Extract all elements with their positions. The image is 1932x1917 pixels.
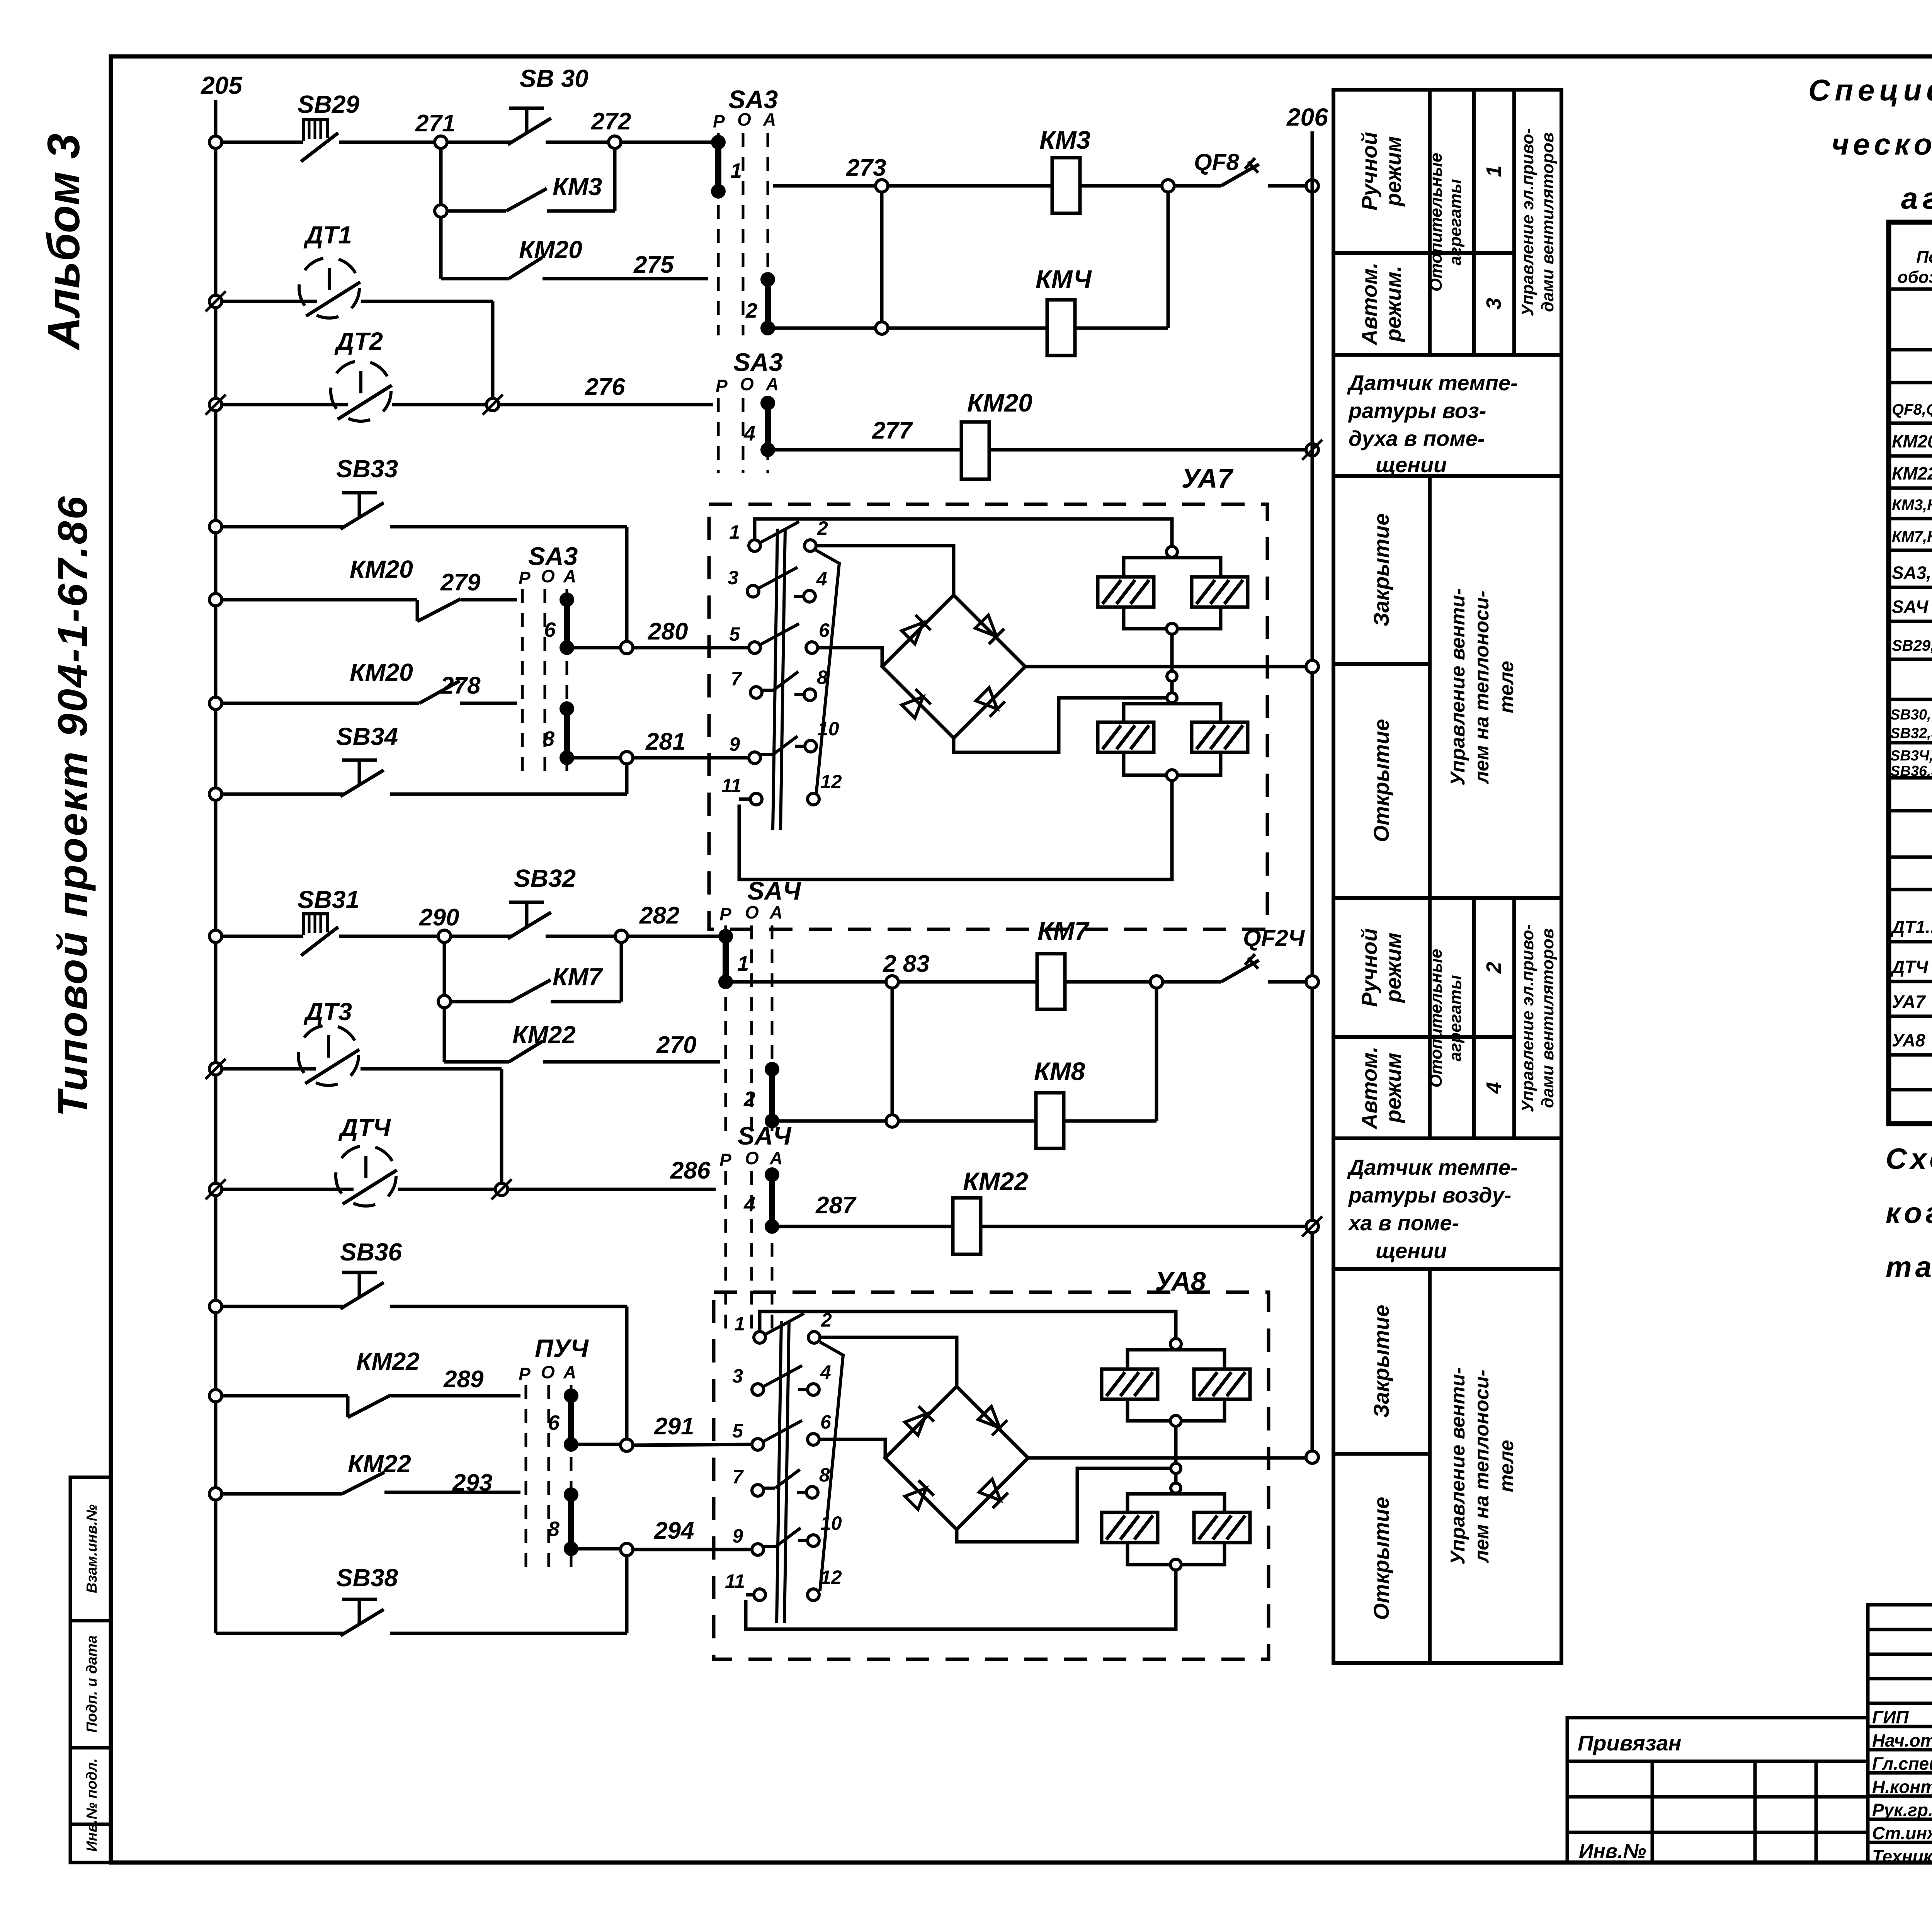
diode VD8: [978, 1478, 1008, 1508]
connector UA7 pin 4: [804, 590, 815, 602]
svg-text:Автом.: Автом.: [1357, 262, 1381, 346]
node on bus row DT2: [206, 395, 226, 415]
node 294: [621, 1543, 633, 1556]
svg-text:режим.: режим.: [1381, 265, 1405, 342]
switch SA3 contact 8 bar: [560, 701, 574, 716]
wire 280 row: [573, 646, 621, 650]
connector UA8 pin 3: [752, 1384, 764, 1395]
svg-text:Н.контр.: Н.контр.: [1872, 1777, 1932, 1797]
svg-text:Ручной: Ручной: [1357, 132, 1381, 210]
wire node272 to SA3: [621, 141, 713, 144]
svg-text:6: 6: [548, 1411, 560, 1434]
connector UA7 bar: [773, 529, 777, 830]
svg-text:УА8: УА8: [1892, 1030, 1925, 1050]
switch PU4 contact 6 bar: [564, 1388, 578, 1403]
connector UA7 pin 9: [749, 752, 760, 764]
svg-text:4: 4: [820, 1361, 831, 1383]
svg-text:Отопительные: Отопительные: [1427, 153, 1446, 291]
svg-text:8: 8: [543, 727, 554, 750]
node 282: [615, 930, 628, 942]
svg-text:А: А: [763, 109, 776, 129]
wire row SB33 left: [221, 525, 344, 529]
button SB34: [342, 759, 377, 762]
wire SB30 to node 272: [546, 141, 608, 144]
switch PU4 contact 8 bar: [564, 1487, 578, 1502]
svg-text:3: 3: [1482, 298, 1505, 310]
coil KM20: [961, 422, 989, 479]
sensor DT3: [298, 1025, 359, 1085]
node on bus row SB31: [209, 930, 222, 942]
connector UA7 pin 6: [806, 642, 818, 653]
node junction 286: [492, 1179, 512, 1199]
wire UA7 bridge output to bus 206: [1025, 665, 1307, 668]
wire 294 row: [577, 1547, 621, 1551]
connector UA8 pin 5: [752, 1439, 764, 1450]
switch SA4 contact 1 bar: [718, 929, 733, 944]
diode VD5: [904, 1406, 934, 1436]
svg-text:Инв.№: Инв.№: [1579, 1840, 1646, 1863]
electromagnet group UA8 opening bottom node: [1170, 1559, 1181, 1570]
svg-text:Закрытие: Закрытие: [1369, 514, 1393, 627]
slashed node on bus 206 row 277: [1302, 440, 1322, 460]
svg-text:режим: режим: [1381, 932, 1405, 1003]
breaker QF8: [1221, 164, 1259, 186]
diode VD3: [901, 689, 931, 719]
switch SA3 contact 1 bar: [711, 135, 726, 150]
svg-text:Управление эл.приво-: Управление эл.приво-: [1518, 128, 1537, 316]
valve UA7 dashed box: [709, 504, 1267, 929]
wire UA8 pin1 to top rail: [760, 1311, 1176, 1338]
svg-text:2 83: 2 83: [883, 951, 930, 977]
switch SA4 contact 2 bar: [765, 1062, 779, 1077]
svg-text:КМ20,: КМ20,: [1892, 431, 1932, 451]
contact KM7 aux: [438, 995, 451, 1008]
wire coil KM4 to vertical: [1075, 327, 1168, 330]
coil KM8: [1036, 1093, 1064, 1148]
connector UA7 moving contact slashes: [760, 522, 799, 543]
svg-text:агрегаты: агрегаты: [1446, 179, 1465, 265]
svg-text:КМЧ: КМЧ: [1036, 265, 1092, 293]
wire vertical from node 271: [439, 148, 443, 279]
svg-text:206: 206: [1286, 103, 1328, 131]
svg-text:ДТ3: ДТ3: [303, 998, 352, 1026]
diode VD1: [901, 615, 931, 645]
svg-text:11: 11: [725, 1570, 745, 1592]
svg-text:агрегаты: агрегаты: [1446, 975, 1465, 1061]
wire UA8 pin11 stub: [746, 1593, 754, 1597]
switch SA3 dashed columns: [717, 133, 720, 335]
node 283: [886, 976, 898, 988]
contact KM22 289: [221, 1394, 348, 1398]
node on bus row 289: [209, 1390, 222, 1402]
connector UA8 right pin stubs: [798, 1388, 808, 1391]
svg-text:Открытие: Открытие: [1369, 719, 1393, 842]
wire DT3 to corner: [361, 1067, 502, 1071]
wire row SB36 left: [221, 1305, 344, 1308]
node 272: [609, 136, 621, 148]
coil KM22: [953, 1198, 981, 1254]
wire row SB29 left: [221, 141, 303, 144]
svg-text:205: 205: [201, 71, 243, 99]
svg-text:Типовой проект 904-1-67.86: Типовой проект 904-1-67.86: [49, 495, 96, 1117]
wire 273 vertical: [880, 192, 884, 322]
svg-text:SA3: SA3: [733, 348, 783, 376]
wire UA8 pin2 to pin12 diagonal: [820, 1342, 843, 1591]
svg-text:А: А: [769, 902, 782, 922]
svg-text:КМ22,: КМ22,: [1892, 463, 1932, 483]
switch SA3 group 2 dashed columns: [717, 398, 720, 473]
wire QF8 to bus 206: [1268, 184, 1306, 188]
electromagnet group UA8 opening bracket bottom: [1128, 1543, 1225, 1565]
electromagnet group UA7 opening bottom node: [1167, 770, 1177, 781]
connector UA7 pin 10: [805, 740, 816, 752]
svg-text:10: 10: [820, 1512, 842, 1534]
svg-text:5: 5: [729, 623, 740, 645]
connector UA8 pin 6: [808, 1434, 819, 1445]
node UA7 middle upper: [1167, 671, 1177, 681]
svg-text:КМ22: КМ22: [963, 1167, 1028, 1196]
svg-text:Схема выполнена на основании: Схема выполнена на основании техничес-: [1886, 1143, 1932, 1175]
node on bus row DT3: [206, 1059, 226, 1079]
switch SA3 contact 4 bar: [760, 396, 775, 410]
node UA8 middle upper: [1171, 1463, 1181, 1473]
svg-text:ха в поме-: ха в поме-: [1347, 1211, 1459, 1235]
wire UA8 coils middle vertical: [1174, 1426, 1178, 1484]
svg-text:4: 4: [743, 422, 755, 445]
svg-text:Взам.инв.№: Взам.инв.№: [84, 1504, 100, 1593]
svg-text:Спецификация принципиальной: Спецификация принципиальной электри-: [1808, 73, 1932, 107]
svg-text:Р: Р: [713, 111, 725, 131]
svg-text:щении: щении: [1376, 1238, 1447, 1263]
wire up to node 272: [613, 148, 617, 211]
wire UA7 pin1 to top rail: [755, 519, 1172, 546]
node 291: [621, 1439, 633, 1451]
node UA8 opening top node: [1171, 1483, 1181, 1493]
svg-text:Р: Р: [519, 568, 531, 588]
node on bus row SB33: [209, 520, 222, 533]
svg-text:4: 4: [743, 1193, 755, 1216]
wire row DT2 left: [221, 403, 348, 407]
connector UA8 pin 11: [754, 1589, 765, 1601]
wire QF24 to bus 206: [1268, 980, 1306, 984]
svg-text:режим: режим: [1381, 136, 1405, 207]
wire 286 to SA4: [507, 1188, 716, 1191]
switch SA3 contact 6 bar: [560, 592, 574, 607]
coil KM4: [1047, 300, 1075, 356]
svg-text:ратуры воз-: ратуры воз-: [1348, 398, 1486, 423]
wire 273 row from SA3: [773, 184, 876, 188]
svg-text:1: 1: [730, 159, 742, 182]
wire corner down to 286 row: [500, 1069, 503, 1189]
margin stamp table: [70, 1477, 111, 1863]
wire UA8 pin6 to bridge left: [819, 1439, 885, 1457]
node on bus 206 UA7 output: [1306, 660, 1318, 673]
svg-text:Отопительные: Отопительные: [1427, 949, 1446, 1087]
svg-text:А: А: [769, 1148, 782, 1168]
svg-text:дами вентиляторов: дами вентиляторов: [1538, 133, 1557, 312]
svg-text:О: О: [745, 902, 759, 922]
wire DT4 to junction: [398, 1188, 496, 1191]
svg-text:О: О: [745, 1148, 759, 1168]
wire vertical KM8 to QF24 junction: [1155, 988, 1158, 1121]
electromagnet coil UA7 closing left: [1098, 577, 1154, 607]
svg-text:290: 290: [419, 904, 459, 931]
svg-text:Инв.№ подл.: Инв.№ подл.: [84, 1758, 100, 1852]
svg-text:Датчик темпе-: Датчик темпе-: [1347, 1155, 1518, 1179]
svg-text:Автом.: Автом.: [1357, 1046, 1381, 1130]
svg-text:SB31: SB31: [298, 886, 359, 913]
svg-text:1: 1: [737, 952, 749, 975]
wire row DT3 left: [221, 1067, 316, 1071]
connector UA8 pin 4: [808, 1384, 819, 1395]
wire vertical from node 290: [443, 942, 446, 1062]
node on bus 206 UA8 output: [1306, 1451, 1318, 1463]
node on bus row SB36: [209, 1300, 222, 1313]
wire 294 to UA8 pin9: [633, 1548, 752, 1551]
svg-text:11: 11: [721, 775, 742, 796]
svg-text:Р: Р: [716, 376, 728, 396]
svg-text:агрегатами.: агрегатами.: [1901, 181, 1932, 215]
wire 277 row from SA3: [773, 448, 961, 452]
svg-text:2: 2: [743, 1087, 755, 1111]
connector UA8 pin 8: [806, 1487, 818, 1498]
svg-text:293: 293: [452, 1470, 492, 1496]
wire to coil KM8: [898, 1119, 1036, 1123]
electromagnet coil UA7 opening right: [1192, 722, 1248, 752]
svg-text:теле: теле: [1495, 1440, 1518, 1492]
node 290: [438, 930, 451, 942]
svg-text:А: А: [563, 566, 576, 586]
contact KM22 270: [444, 1060, 509, 1064]
electromagnet group UA7 closing bracket top: [1124, 558, 1221, 577]
svg-text:А: А: [765, 374, 779, 394]
connector UA8 bar: [777, 1321, 781, 1623]
wire up to node 282: [620, 942, 623, 1002]
connector UA7 pin 5: [749, 642, 760, 653]
svg-text:тации УКАС-М, черт. ЖБИК.6564: тации УКАС-М, черт. ЖБИК.656461.033.ЭЗ.: [1886, 1251, 1932, 1284]
connector UA7 pin 2: [804, 540, 816, 551]
svg-text:лем на теплоноси-: лем на теплоноси-: [1471, 590, 1493, 784]
wire to coil KM7: [898, 980, 1037, 984]
wire coil KM3 to junction: [1080, 184, 1162, 188]
electromagnet coil UA7 opening left: [1098, 722, 1154, 752]
svg-text:SB34: SB34: [336, 723, 398, 750]
svg-text:лем на теплоноси-: лем на теплоноси-: [1471, 1369, 1493, 1563]
node 271: [435, 136, 447, 148]
svg-text:КМ20: КМ20: [519, 236, 582, 264]
svg-text:SB36,SB38: SB36,SB38: [1890, 763, 1932, 779]
wire SB29 to node 271: [339, 141, 434, 144]
button SB31: [303, 914, 327, 935]
button SB32: [450, 935, 511, 938]
node UA7 opening top node: [1167, 693, 1177, 703]
svg-text:281: 281: [645, 728, 685, 755]
svg-text:режим: режим: [1381, 1053, 1405, 1123]
svg-text:SАЧ: SАЧ: [1892, 597, 1929, 617]
svg-text:282: 282: [639, 902, 679, 929]
svg-text:2: 2: [745, 299, 757, 322]
svg-text:КМ22: КМ22: [512, 1021, 576, 1049]
svg-text:духа в поме-: духа в поме-: [1349, 426, 1485, 451]
connector UA8 pin 1: [754, 1332, 765, 1343]
diode bridge UA7: [882, 595, 1025, 738]
wire node282 to SA4: [628, 935, 720, 938]
diode VD4: [975, 687, 1005, 717]
svg-text:КМ3,КМЧ: КМ3,КМЧ: [1892, 497, 1932, 514]
wire row SB31 left: [221, 935, 303, 938]
svg-text:ДТЧ: ДТЧ: [338, 1114, 391, 1141]
contact KM20 279: [221, 598, 417, 602]
connector UA8 pin 7: [752, 1485, 764, 1496]
node on bus 206 row 283: [1306, 976, 1318, 988]
svg-text:278: 278: [440, 672, 481, 699]
contact KM22 293: [221, 1492, 342, 1496]
svg-text:6: 6: [820, 1411, 832, 1433]
svg-text:Ст.инж.: Ст.инж.: [1872, 1823, 1932, 1843]
wire row DT1 left: [221, 300, 317, 303]
node junction QF24: [1150, 976, 1163, 988]
connector UA7 pin 1: [749, 540, 760, 551]
svg-text:Р: Р: [719, 1150, 731, 1170]
node on bus row DT4: [206, 1179, 226, 1199]
svg-text:294: 294: [654, 1517, 694, 1544]
wire corner up to 281 row: [625, 763, 629, 794]
svg-text:О: О: [740, 374, 754, 394]
sensor DT4: [336, 1146, 396, 1206]
svg-text:275: 275: [633, 252, 674, 278]
svg-text:SB36: SB36: [340, 1238, 402, 1266]
title block attachment table: [1567, 1718, 1868, 1863]
svg-text:4: 4: [816, 568, 827, 590]
svg-text:SB29,SB31: SB29,SB31: [1892, 637, 1932, 654]
button SB30: [447, 141, 511, 144]
wire DT1 to corner: [361, 300, 493, 303]
electromagnet coil UA8 closing left: [1102, 1369, 1158, 1399]
node junction QF8: [1162, 180, 1174, 192]
wire 287 row from SA4: [777, 1225, 953, 1228]
svg-text:КМ8: КМ8: [1034, 1057, 1085, 1085]
svg-text:ческой схемы управления ото: ческой схемы управления отопительными: [1832, 127, 1932, 161]
svg-text:3: 3: [732, 1365, 743, 1387]
switch SA4 group 2 dashed columns: [724, 1171, 727, 1333]
svg-text:КМ20: КМ20: [350, 555, 413, 583]
wire to coil KM3: [888, 184, 1052, 188]
specification table grid: [1889, 222, 1932, 1124]
svg-text:3: 3: [728, 567, 738, 589]
wire UA7 pin2 to bridge top: [816, 546, 954, 595]
wire vertical KM4 to QF8 junction: [1167, 192, 1170, 328]
node on bus row SB34: [209, 788, 222, 800]
button SB33: [342, 491, 377, 495]
node 280: [621, 641, 633, 654]
wire UA8 pin2 to bridge top: [820, 1337, 957, 1386]
wire UA7 coils middle vertical: [1170, 634, 1174, 692]
svg-text:7: 7: [732, 1466, 744, 1488]
wire UA7 pin6 to bridge left: [818, 648, 882, 666]
svg-text:ДТ1...: ДТ1...: [1890, 917, 1932, 937]
svg-text:щении: щении: [1376, 452, 1447, 477]
svg-text:КМ22: КМ22: [356, 1347, 420, 1375]
wire UA7 bridge bottom to opening coils: [954, 698, 1167, 752]
svg-text:272: 272: [591, 108, 631, 135]
svg-text:ГИП: ГИП: [1872, 1707, 1909, 1727]
electromagnet coil UA8 closing right: [1194, 1369, 1250, 1399]
svg-text:Ручной: Ручной: [1357, 928, 1381, 1007]
svg-text:О: О: [737, 109, 751, 129]
node on 283 vertical: [886, 1115, 898, 1127]
svg-text:287: 287: [815, 1192, 857, 1219]
wire corner down to 291 row: [625, 1306, 629, 1439]
svg-text:дами вентиляторов: дами вентиляторов: [1538, 929, 1557, 1108]
svg-text:КМ7: КМ7: [553, 963, 604, 991]
svg-text:SB32: SB32: [514, 864, 576, 892]
svg-text:QF8: QF8: [1194, 149, 1239, 175]
connector UA7 right pin stubs: [794, 595, 804, 598]
svg-text:273: 273: [846, 155, 886, 181]
svg-text:4: 4: [1482, 1082, 1505, 1094]
svg-text:Управление эл.приво-: Управление эл.приво-: [1518, 924, 1537, 1112]
electromagnet group UA7 closing top node: [1167, 546, 1177, 557]
svg-text:9: 9: [729, 733, 740, 755]
svg-text:276: 276: [585, 374, 625, 400]
svg-text:2: 2: [1482, 962, 1505, 974]
svg-text:286: 286: [670, 1157, 711, 1184]
bus 206 vertical wire: [1311, 131, 1314, 1458]
svg-text:Подп. и дата: Подп. и дата: [84, 1635, 100, 1733]
electromagnet group UA7 closing bracket bottom: [1124, 607, 1221, 629]
wire to QF24: [1163, 980, 1221, 984]
svg-text:КМ3: КМ3: [1039, 126, 1090, 154]
electromagnet coil UA8 opening left: [1102, 1512, 1158, 1543]
diode bridge UA8: [885, 1386, 1028, 1529]
connector UA7 pin 11: [750, 793, 762, 805]
svg-text:Привязан: Привязан: [1578, 1731, 1681, 1755]
switch SA3 contact 2 bar: [760, 272, 775, 287]
svg-text:6: 6: [819, 619, 830, 641]
svg-text:5: 5: [732, 1420, 743, 1442]
switch SA4 dashed columns: [724, 925, 727, 1132]
wire KM8 row from SA4: [777, 1119, 886, 1123]
node 281: [621, 752, 633, 764]
wire UA8 bottom return rail: [746, 1570, 1176, 1629]
wire row SB34 left: [221, 793, 344, 796]
wire UA7 pin11 stub: [739, 798, 750, 801]
wire to QF8: [1174, 184, 1221, 188]
wire to coil KM4: [888, 327, 1047, 330]
svg-text:7: 7: [731, 668, 742, 690]
svg-text:Управление венти-: Управление венти-: [1447, 1368, 1469, 1565]
wire 276 to SA3: [498, 403, 713, 407]
electromagnet coil UA8 opening right: [1194, 1512, 1250, 1543]
svg-text:SB 30: SB 30: [520, 65, 588, 92]
wire 283 vertical: [891, 988, 894, 1115]
svg-text:Датчик темпе-: Датчик темпе-: [1347, 371, 1518, 395]
switch PU4 dashed columns: [525, 1385, 527, 1569]
node on bus row SB29: [209, 136, 222, 148]
connector UA7 pin 12: [808, 793, 819, 805]
switch SA3 group 3 dashed columns: [521, 589, 524, 773]
svg-text:SAЧ: SAЧ: [738, 1121, 792, 1150]
bus 205 vertical wire: [214, 100, 218, 1633]
svg-text:289: 289: [443, 1366, 484, 1393]
node on 273 vertical: [876, 322, 888, 334]
wire SB31 to node 290: [339, 935, 439, 938]
svg-text:теле: теле: [1495, 661, 1518, 713]
wire 281 to UA7 pin9: [633, 756, 749, 760]
diode VD6: [977, 1405, 1007, 1436]
svg-text:А: А: [563, 1362, 576, 1382]
wire coil KM20 to bus 206: [989, 448, 1307, 452]
